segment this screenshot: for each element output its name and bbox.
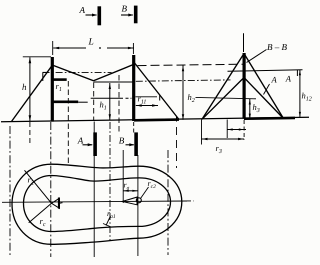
left mast (elevation) [51, 57, 54, 122]
reference line right of h2 label [196, 97, 257, 98]
svg-text:rc: rc [40, 216, 46, 228]
small dimension line (upper) [227, 129, 246, 131]
plan: left triangle tip [60, 202, 63, 205]
ra dimension line [123, 190, 138, 192]
dimension L: dot [99, 47, 101, 49]
plan: right center triangle symbol [123, 197, 138, 205]
small bracket at chord left end: horizontal [43, 71, 49, 73]
section marker B (top): thick bar [134, 6, 138, 24]
svg-text:h: h [22, 82, 27, 92]
svg-text:B – B: B – B [267, 42, 287, 52]
dimension L: extension line above left mast [52, 41, 54, 55]
sag bottom reference line [94, 81, 133, 83]
h12 bracket corner tick [296, 70, 298, 76]
dashed line below right guy foot [176, 127, 178, 168]
dash-dot below mast B [133, 122, 135, 133]
thick ground segment under B-B right side [244, 117, 295, 120]
ledge r1 on left mast (thick) [54, 78, 67, 81]
svg-text:r1: r1 [56, 81, 62, 93]
upper dim right arrowhead [239, 128, 244, 130]
section marker B (bottom): thick bar [134, 132, 138, 156]
plan: radius line rc (to inner) [29, 203, 52, 222]
drop line below marker B through plan [137, 155, 139, 256]
small bracket at chord left end: vertical [42, 72, 44, 81]
r11 reference tick line [136, 96, 158, 98]
leader rc2 to circle [141, 187, 149, 199]
plan: left center triangle symbol [52, 198, 60, 208]
svg-text:r2: r2 [28, 175, 34, 187]
B-B guy: mid-right [244, 78, 284, 119]
section marker A (top): arrow line [86, 14, 97, 16]
solid drop line at x=123 [122, 150, 124, 203]
dash-dot sag-level line to B-B [136, 80, 231, 81]
reference segment dashes to mast [126, 97, 132, 99]
ra left arrowhead [124, 190, 129, 192]
solid drop line below marker A to plan [93, 122, 95, 258]
tick at end of r11 reference line [159, 95, 161, 101]
dimension h1: vertical line [109, 83, 111, 120]
leader from label A to guys [264, 84, 270, 95]
h3 bottom arrowhead [249, 114, 251, 119]
r3 dimension line [202, 138, 245, 140]
plan: left triangle bar [58, 198, 60, 209]
B-B mast: thin extension above [243, 33, 245, 52]
svg-text:r11: r11 [138, 94, 147, 106]
thick ground segment right of mast B [134, 118, 179, 121]
svg-text:h3: h3 [253, 102, 260, 114]
B-B guy: mid-left [202, 78, 244, 120]
dimension L: dimension line left segment [53, 47, 86, 49]
B-B mast (thick) [243, 53, 246, 119]
h12 dimension vertical [299, 70, 301, 117]
plan: horizontal centerline [2, 201, 187, 202]
svg-text:h1: h1 [100, 100, 107, 112]
dash-dot drop line x=110 through plan [109, 122, 111, 240]
dimension h: bottom arrowhead [29, 115, 32, 121]
plan: radius line r2 (to outer) [25, 170, 52, 203]
svg-text:r3: r3 [216, 143, 222, 155]
section marker A (top): thick bar [98, 6, 102, 25]
plan: right center circle [136, 198, 141, 203]
dash-dot line of left guy anchor through plan [9, 126, 11, 257]
dimension h: vertical line [29, 57, 31, 121]
r11 right arrowhead [152, 104, 158, 106]
tick on inner bottom contour [103, 224, 110, 227]
dashed drop line from ledge r1 end [67, 81, 69, 164]
svg-text:h12: h12 [302, 91, 312, 103]
right guy wire (mast B) [135, 63, 179, 120]
svg-text:ra: ra [124, 181, 130, 192]
section marker A (bottom): thick bar [93, 132, 97, 156]
r3 right arrowhead [238, 138, 244, 140]
dash-dot right anchor line through plan [167, 150, 169, 255]
ground line (tilted, full width) [1, 117, 309, 122]
B-B label leader [247, 50, 267, 63]
section marker B (top): arrow line [121, 14, 133, 16]
catenary cable right segment [94, 65, 133, 81]
lower ledge on left mast (thick) [54, 101, 79, 104]
h3 dimension vertical [249, 99, 251, 119]
h12 top arrowhead [299, 70, 301, 75]
h12 bottom arrowhead [299, 112, 301, 117]
dimension L: right arrowhead [128, 47, 134, 50]
tick at right guy foot [176, 116, 178, 122]
dash-dot centerline left mast through plan [50, 122, 52, 257]
B-B mast axis below ground (dash) [243, 120, 245, 140]
extension below left anchor [201, 120, 203, 145]
dimension h1: bottom arrowhead [109, 114, 111, 120]
upper dim left arrowhead [228, 128, 233, 130]
dashed drop line from sag bottom [93, 83, 95, 122]
section marker A (bottom): arrow line [83, 144, 93, 146]
svg-text:h2: h2 [188, 92, 195, 104]
svg-text:B: B [122, 4, 128, 14]
svg-text:L: L [88, 38, 94, 48]
catenary cable left segment [54, 66, 94, 81]
chord reference line (dash-dot) [43, 71, 112, 73]
plan: outer contour [12, 164, 182, 244]
h3 top arrowhead [249, 100, 251, 105]
h2 bottom arrowhead [182, 114, 184, 120]
r11 dimension line [136, 105, 158, 107]
cable level line A (solid) [228, 70, 303, 72]
reference segment above h1 label [91, 97, 123, 99]
svg-text:ra1: ra1 [107, 209, 116, 220]
svg-text:A: A [285, 74, 292, 84]
dimension h: top extension line [23, 56, 51, 58]
r3 left arrowhead [202, 138, 208, 140]
r11 left arrowhead [136, 104, 142, 106]
plan: inner contour [24, 176, 171, 232]
dashed vertical at x=119 [118, 75, 120, 132]
leader ra1 to inner contour [106, 217, 110, 226]
dimension L: dimension line right segment [107, 47, 134, 49]
svg-text:A: A [77, 136, 84, 146]
dimension h1: top arrowhead [109, 84, 111, 90]
svg-text:A: A [79, 5, 86, 15]
section marker B (bottom): arrow line [126, 144, 134, 146]
lower ledge thin extension [78, 101, 88, 103]
B-B guy: top-left [202, 54, 244, 120]
extension at x=227 [226, 120, 228, 139]
dimension L: left arrowhead [53, 47, 59, 50]
dimension h: top arrowhead [29, 57, 32, 63]
left guy wire [11, 66, 51, 121]
right mast (elevation) [132, 55, 135, 121]
h2 dimension vertical [182, 65, 184, 119]
ra right arrowhead [132, 190, 137, 192]
svg-text:B: B [119, 136, 125, 146]
short dashes below h dimension [29, 122, 31, 143]
svg-text:A: A [271, 75, 278, 85]
h2 top arrowhead [182, 66, 184, 72]
dimension L: extension line above right mast [132, 43, 134, 54]
plan: centerline dash extension right [187, 200, 194, 202]
B-B guy: top-right [244, 54, 284, 119]
dashed attachment-level line to B-B [138, 64, 244, 65]
